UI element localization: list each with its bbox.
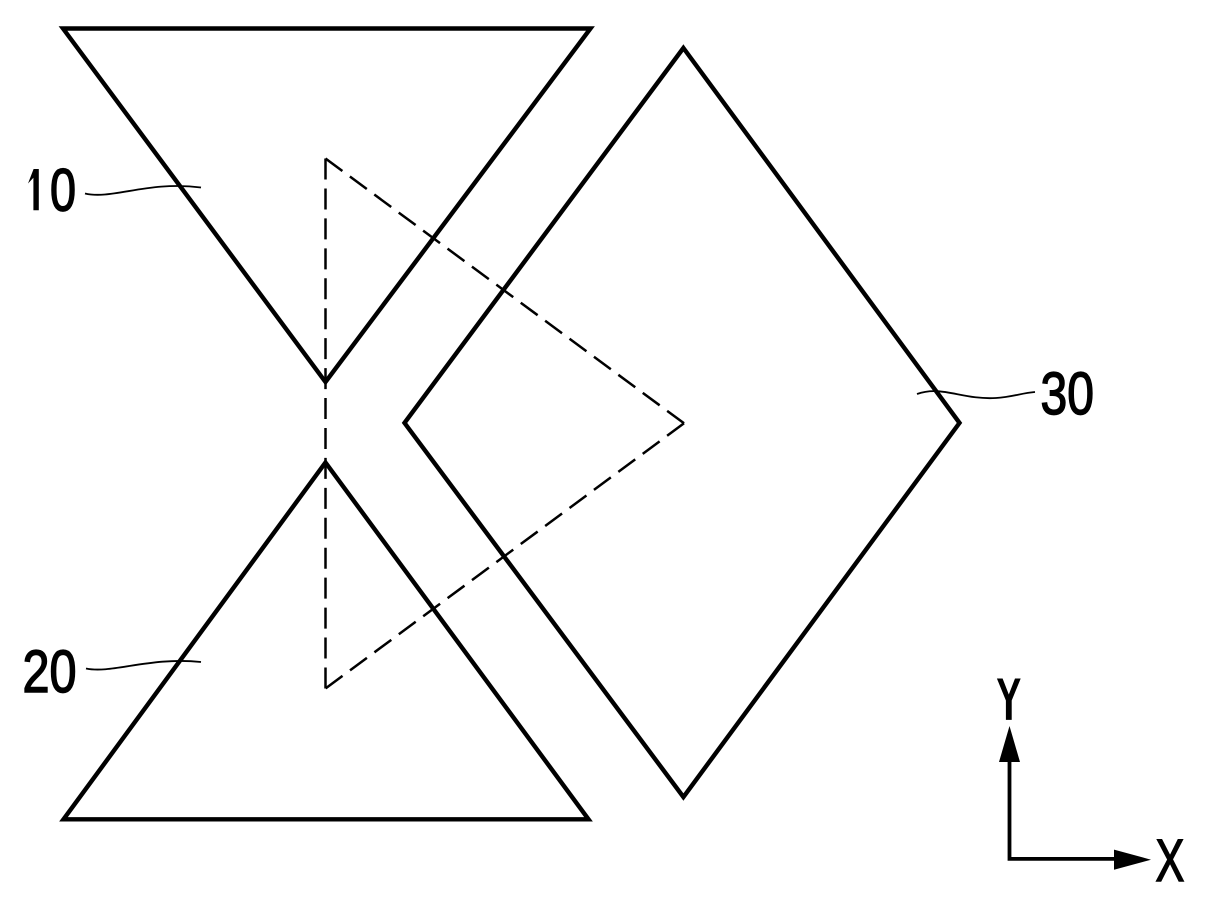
svg-text:X: X [1156,827,1185,894]
leader line for 20 [86,661,201,670]
axis label Y drawn as path [997,679,1021,720]
svg-text:20: 20 [23,638,77,705]
svg-text:0: 0 [50,157,76,224]
leader line for 10 [85,186,201,195]
axis Y arrowhead [999,726,1020,762]
shape 10: downward-pointing solid triangle [63,29,591,383]
shape 30: solid rhombus [405,48,960,797]
leader line for 30 [917,391,1035,398]
axis X-Y corner lines [1010,762,1115,859]
dashed triangle: vertical edge [324,159,327,689]
svg-text:30: 30 [1041,360,1094,427]
axis X arrowhead [1114,850,1151,870]
label 10: digit 1 drawn as path (no foot serif) [28,169,39,210]
dashed triangle: lower diagonal edge [326,423,685,688]
dashed triangle: upper diagonal edge [326,159,685,424]
shape 20: upward-pointing solid triangle [64,463,589,820]
